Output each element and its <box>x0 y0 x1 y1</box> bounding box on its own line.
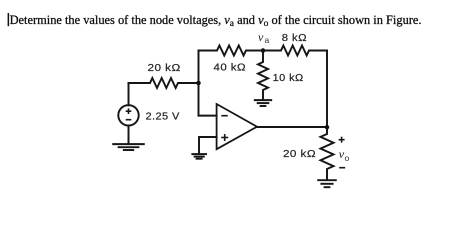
svg-text:v: v <box>258 30 264 44</box>
svg-text:20 kΩ: 20 kΩ <box>148 62 181 74</box>
svg-text:10 kΩ: 10 kΩ <box>273 72 304 84</box>
svg-text:a: a <box>265 35 270 45</box>
svg-text:20 kΩ: 20 kΩ <box>283 148 316 160</box>
svg-text:Determine the values of the no: Determine the values of the node voltage… <box>10 13 422 29</box>
svg-text:40 kΩ: 40 kΩ <box>214 62 247 74</box>
svg-text:2.25 V: 2.25 V <box>146 111 180 123</box>
svg-text:8 kΩ: 8 kΩ <box>282 32 307 44</box>
svg-text:o: o <box>345 153 350 163</box>
